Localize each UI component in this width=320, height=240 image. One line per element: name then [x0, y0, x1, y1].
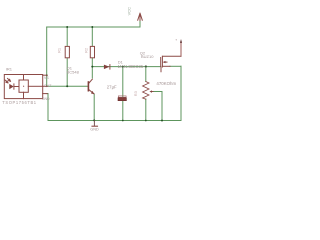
svg-text:BC548: BC548: [67, 70, 80, 75]
svg-text:VS: VS: [44, 76, 49, 80]
svg-text:1N4148DO35-7: 1N4148DO35-7: [118, 64, 148, 69]
svg-text:27µF: 27µF: [107, 84, 117, 89]
svg-text:GND: GND: [42, 97, 50, 101]
svg-text:R1: R1: [56, 47, 61, 53]
svg-text:TSOP1756TB1: TSOP1756TB1: [2, 100, 36, 105]
svg-text:470KOhm: 470KOhm: [156, 81, 176, 86]
svg-text:IR1: IR1: [6, 67, 13, 72]
svg-text:R3: R3: [133, 90, 138, 96]
svg-text:OUT: OUT: [44, 84, 52, 88]
svg-text:R2: R2: [83, 47, 88, 53]
svg-text:VCC: VCC: [127, 7, 132, 16]
svg-text:GND: GND: [90, 127, 99, 131]
svg-text:BUZ10: BUZ10: [141, 54, 154, 59]
